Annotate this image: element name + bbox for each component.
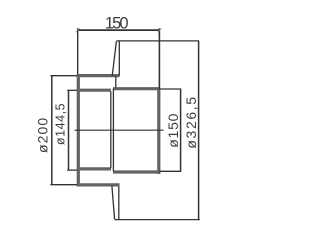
svg-text:ø150: ø150 (165, 113, 181, 148)
svg-text:150: 150 (105, 14, 128, 32)
svg-text:ø200: ø200 (34, 117, 50, 153)
svg-text:ø144,5: ø144,5 (54, 103, 68, 145)
svg-text:ø326,5: ø326,5 (183, 95, 199, 148)
